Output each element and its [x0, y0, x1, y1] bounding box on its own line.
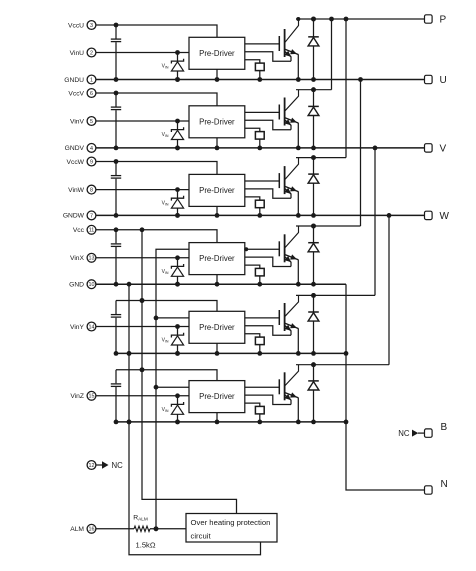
node row X gate/protection junction: [244, 247, 248, 251]
wire collector rail row V: [296, 89, 332, 91]
svg-text:VinU: VinU: [70, 50, 85, 57]
svg-text:VccU: VccU: [68, 22, 84, 29]
zener diode DW (Vin clamp): [175, 187, 180, 192]
svg-text:Pre-Driver: Pre-Driver: [199, 323, 235, 332]
wire collector rail row Z: [296, 364, 389, 366]
wire GND/output rail row W: [96, 214, 425, 216]
wire Vcc rail row Z: [116, 370, 217, 381]
wire Vin row W: [96, 189, 189, 191]
capacitor CX: [115, 230, 117, 244]
wire gate drive row Z: [245, 386, 279, 388]
op-amp U3 Pre-Driver: [189, 174, 245, 206]
svg-text:VinW: VinW: [68, 187, 85, 194]
zener diode DX (Vin clamp): [175, 255, 180, 260]
svg-text:RALM: RALM: [133, 515, 148, 522]
wire Vin row Y: [96, 326, 189, 328]
wire P to V-phase high collector: [331, 19, 333, 90]
op-amp U2 Pre-Driver: [189, 106, 245, 138]
zener diode DU (Vin clamp): [175, 50, 180, 55]
resistor RX (gate sense): [245, 265, 260, 268]
terminal P: [425, 15, 433, 23]
svg-text:16: 16: [89, 527, 95, 533]
wire Vcc bus: [142, 230, 237, 514]
terminal W: [425, 211, 433, 219]
wire Vcc rail row V: [96, 93, 217, 106]
capacitor CV: [115, 93, 117, 107]
svg-text:GNDW: GNDW: [63, 213, 85, 220]
diode D6F freewheel: [311, 362, 316, 367]
wire gate drive row U: [245, 43, 279, 45]
resistor RZ (gate sense): [245, 403, 260, 406]
svg-text:15: 15: [89, 394, 95, 400]
wire Vcc rail row U: [96, 25, 217, 37]
svg-text:VinV: VinV: [70, 118, 85, 125]
svg-text:Pre-Driver: Pre-Driver: [199, 49, 235, 58]
wire P to W-phase high collector: [345, 19, 347, 158]
op-amp U4 Pre-Driver: [189, 243, 245, 275]
svg-text:8: 8: [90, 188, 93, 194]
svg-text:6: 6: [90, 91, 93, 97]
wire GND bus: [129, 284, 261, 555]
transistor Q3 IGBT: [278, 173, 280, 188]
svg-text:3: 3: [90, 23, 93, 29]
over heating protection circuit U7: [186, 514, 277, 543]
svg-text:VccW: VccW: [67, 159, 85, 166]
wire collector rail row X: [296, 225, 361, 227]
wire sense feedback row Y: [245, 326, 291, 335]
svg-text:VIN: VIN: [162, 64, 169, 70]
svg-text:NC: NC: [398, 429, 410, 438]
capacitor CU: [115, 25, 117, 39]
svg-text:GNDV: GNDV: [65, 145, 85, 152]
transistor Q5 IGBT: [278, 310, 280, 325]
svg-text:Pre-Driver: Pre-Driver: [199, 186, 235, 195]
wire Pre-Driver GND drop row Z: [216, 413, 218, 422]
capacitor CY: [115, 301, 117, 315]
wire Vcc rail row Y: [116, 301, 217, 312]
resistor RV (gate sense): [245, 128, 260, 131]
svg-text:VIN: VIN: [162, 407, 169, 413]
svg-text:1.5kΩ: 1.5kΩ: [135, 540, 155, 549]
capacitor CW: [115, 162, 117, 176]
wire gate drive row W: [245, 180, 279, 182]
wire sense feedback row U: [245, 52, 291, 61]
resistor RU (gate sense): [245, 60, 260, 63]
wire sense feedback row W: [245, 189, 291, 198]
svg-text:N: N: [441, 479, 448, 490]
svg-text:Pre-Driver: Pre-Driver: [199, 392, 235, 401]
svg-text:Pre-Driver: Pre-Driver: [199, 254, 235, 263]
svg-text:circuit: circuit: [191, 532, 212, 541]
wire U to X-phase low collector: [360, 80, 362, 227]
svg-text:VIN: VIN: [162, 201, 169, 207]
resistor RY (gate sense): [245, 334, 260, 337]
wire GND/output rail row Y: [116, 352, 346, 354]
svg-text:NC: NC: [112, 461, 124, 470]
terminal V: [425, 144, 433, 152]
zener diode DV (Vin clamp): [175, 119, 180, 124]
wire Vin row X: [96, 257, 189, 259]
wire sense feedback row V: [245, 120, 291, 129]
svg-text:VinX: VinX: [70, 255, 85, 262]
diode D3F freewheel: [311, 155, 316, 160]
svg-text:14: 14: [89, 324, 95, 330]
wire collector rail row W: [296, 157, 346, 159]
wire V to Y-phase low collector: [374, 148, 376, 296]
wire collector rail row Y: [296, 294, 375, 296]
svg-text:9: 9: [90, 159, 93, 165]
wire P rail: [296, 18, 425, 20]
wire Vcc rail row W: [96, 162, 217, 175]
wire Pre-Driver GND drop row W: [216, 206, 218, 215]
svg-text:1: 1: [90, 77, 93, 83]
svg-text:Vcc: Vcc: [73, 227, 85, 234]
op-amp U5 Pre-Driver: [189, 311, 245, 343]
svg-text:2: 2: [90, 50, 93, 56]
wire Vin row U: [96, 52, 189, 54]
wire Vin row V: [96, 120, 189, 122]
svg-text:7: 7: [90, 213, 93, 219]
svg-text:GND: GND: [69, 282, 84, 289]
svg-text:V: V: [440, 144, 447, 155]
wire N bus: [346, 284, 425, 490]
terminal U: [425, 75, 433, 83]
svg-text:5: 5: [90, 119, 93, 125]
op-amp U1 Pre-Driver: [189, 37, 245, 69]
svg-text:4: 4: [90, 146, 93, 152]
wire gate drive row Y: [245, 317, 279, 319]
diode D2F freewheel: [311, 87, 316, 92]
wire sense feedback row Z: [245, 395, 291, 404]
svg-text:VinZ: VinZ: [70, 393, 84, 400]
svg-text:13: 13: [89, 256, 95, 262]
wire GND/output rail row V: [96, 147, 425, 149]
wire Pre-Driver GND drop row V: [216, 138, 218, 148]
pin 12 NC: [87, 461, 96, 470]
transistor Q6 IGBT: [278, 379, 280, 394]
zener diode DZ (Vin clamp): [175, 393, 180, 398]
wire Pre-Driver GND drop row X: [216, 275, 218, 285]
terminal N: [425, 486, 433, 494]
svg-text:VIN: VIN: [162, 269, 169, 275]
wire Pre-Driver GND drop row U: [216, 69, 218, 79]
svg-text:U: U: [440, 75, 447, 86]
wire alarm bus: [156, 249, 189, 529]
wire GND/output rail row Z: [116, 421, 346, 423]
wire W to Z-phase low collector: [388, 215, 390, 364]
svg-text:W: W: [440, 211, 450, 222]
svg-text:P: P: [440, 15, 447, 26]
op-amp U6 Pre-Driver: [189, 381, 245, 413]
svg-text:11: 11: [89, 228, 95, 234]
svg-text:VIN: VIN: [162, 132, 169, 138]
resistor RW (gate sense): [245, 197, 260, 200]
diode D5F freewheel: [311, 293, 316, 298]
svg-text:10: 10: [89, 282, 95, 288]
diode D4F freewheel: [311, 224, 316, 229]
svg-text:Over heating protection: Over heating protection: [191, 518, 271, 527]
transistor Q4 IGBT: [278, 241, 280, 256]
svg-text:Pre-Driver: Pre-Driver: [199, 117, 235, 126]
svg-text:VIN: VIN: [162, 338, 169, 344]
wire GND/output rail row U: [96, 79, 425, 81]
wire sense feedback row X: [245, 257, 291, 266]
resistor RALM 1.5k: [134, 526, 150, 531]
svg-text:12: 12: [89, 463, 95, 469]
wire Pre-Driver GND drop row Y: [216, 343, 218, 353]
zener diode DY (Vin clamp): [175, 324, 180, 329]
svg-text:VccV: VccV: [68, 90, 84, 97]
transistor Q2 IGBT: [278, 105, 280, 120]
diode D1F freewheel: [311, 17, 316, 22]
wire Vin row Z: [96, 395, 189, 397]
transistor Q1 IGBT: [278, 36, 280, 51]
svg-text:VinY: VinY: [70, 324, 85, 331]
svg-text:GNDU: GNDU: [64, 77, 84, 84]
svg-text:ALM: ALM: [70, 526, 84, 533]
wire gate drive row X: [245, 248, 279, 250]
svg-text:B: B: [441, 422, 448, 433]
capacitor CZ: [115, 370, 117, 384]
wire GND/output rail row X: [96, 283, 346, 285]
wire gate drive row V: [245, 111, 279, 113]
wire Vcc rail row X: [96, 230, 217, 243]
